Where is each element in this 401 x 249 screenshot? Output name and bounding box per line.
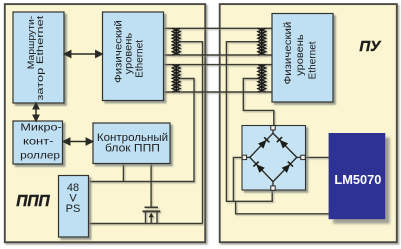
block: microcontroller [13,121,63,164]
PSE outer box (ППП) [5,4,205,242]
wire bridge left terminal link [233,157,242,201]
wire Ethernet pair 2a [164,64,273,66]
transformer T1 left winding [172,28,180,55]
bridge terminal stubs [246,129,302,187]
svg-text:PS: PS [66,203,81,215]
svg-text:ППП: ППП [16,193,50,210]
wire bridge right terminal to LM5070 [306,156,329,158]
svg-text:Микро-: Микро- [20,123,61,134]
wire 48V PS bottom rail to MOSFET [89,223,202,225]
wire Ethernet pair 1b [164,54,273,56]
svg-text:Ethernet: Ethernet [134,40,146,78]
wire T2 center tap to 48V rail [89,79,194,182]
svg-text:уровень: уровень [294,34,306,76]
svg-text:блок ППП: блок ППП [105,143,160,155]
IC LM5070 [329,133,386,219]
svg-text:роллер: роллер [20,150,60,161]
transformer T2 left winding [172,65,180,92]
Q1 channel bar [143,210,161,212]
node left terminal [242,155,246,159]
diode D1 [258,137,269,148]
wire control block gate drive [150,164,152,208]
block: PHY Ethernet (PSE) [103,12,164,101]
Q1 body arrow [150,216,152,224]
svg-text:затор Ethernet: затор Ethernet [35,15,45,100]
Q1 gate bar [145,206,159,208]
transistor Q1 (PSE switch MOSFET) [143,207,161,223]
Q1 drain leg [145,211,147,223]
wire Ethernet pair 2b [164,91,273,93]
wire bridge minus to LM5070 bottom pin [236,201,329,214]
bridge diamond [250,133,297,181]
svg-text:Ethernet: Ethernet [307,41,319,79]
svg-text:ПУ: ПУ [359,38,382,55]
transformer T2' right winding [258,65,266,92]
node top terminal [271,126,275,130]
block: 48V power supply [59,176,89,238]
PD outer box (ПУ) [220,4,397,242]
block: PHY Ethernet (PD) [272,14,333,103]
wire T2' center tap to bridge top [243,79,273,127]
block: Ethernet router [13,12,64,103]
svg-text:LM5070: LM5070 [334,172,381,187]
diode D4 [282,161,293,172]
diode D2 [277,137,288,148]
arrow router-PHY [65,51,103,57]
wire group [89,28,328,223]
node bottom terminal [271,186,275,190]
transformer T1' right winding [258,28,266,55]
arrow router-microcontroller [33,103,38,121]
wire T1 center tap to MOSFET rail [181,42,203,224]
node right terminal [301,155,305,159]
diode D3 [253,161,264,172]
svg-text:Физический: Физический [282,22,294,85]
wire Ethernet pair 1a (left PHY to right PHY) [164,27,273,29]
Q1 source leg [156,211,158,223]
block: PSE control block [93,123,170,164]
svg-text:конт-: конт- [23,137,54,148]
diode bridge block [242,126,306,191]
wire T1' center tap down-left to node row [226,42,272,202]
wire control block sense drop [122,164,124,182]
arrow microcontroller-control [64,138,93,144]
